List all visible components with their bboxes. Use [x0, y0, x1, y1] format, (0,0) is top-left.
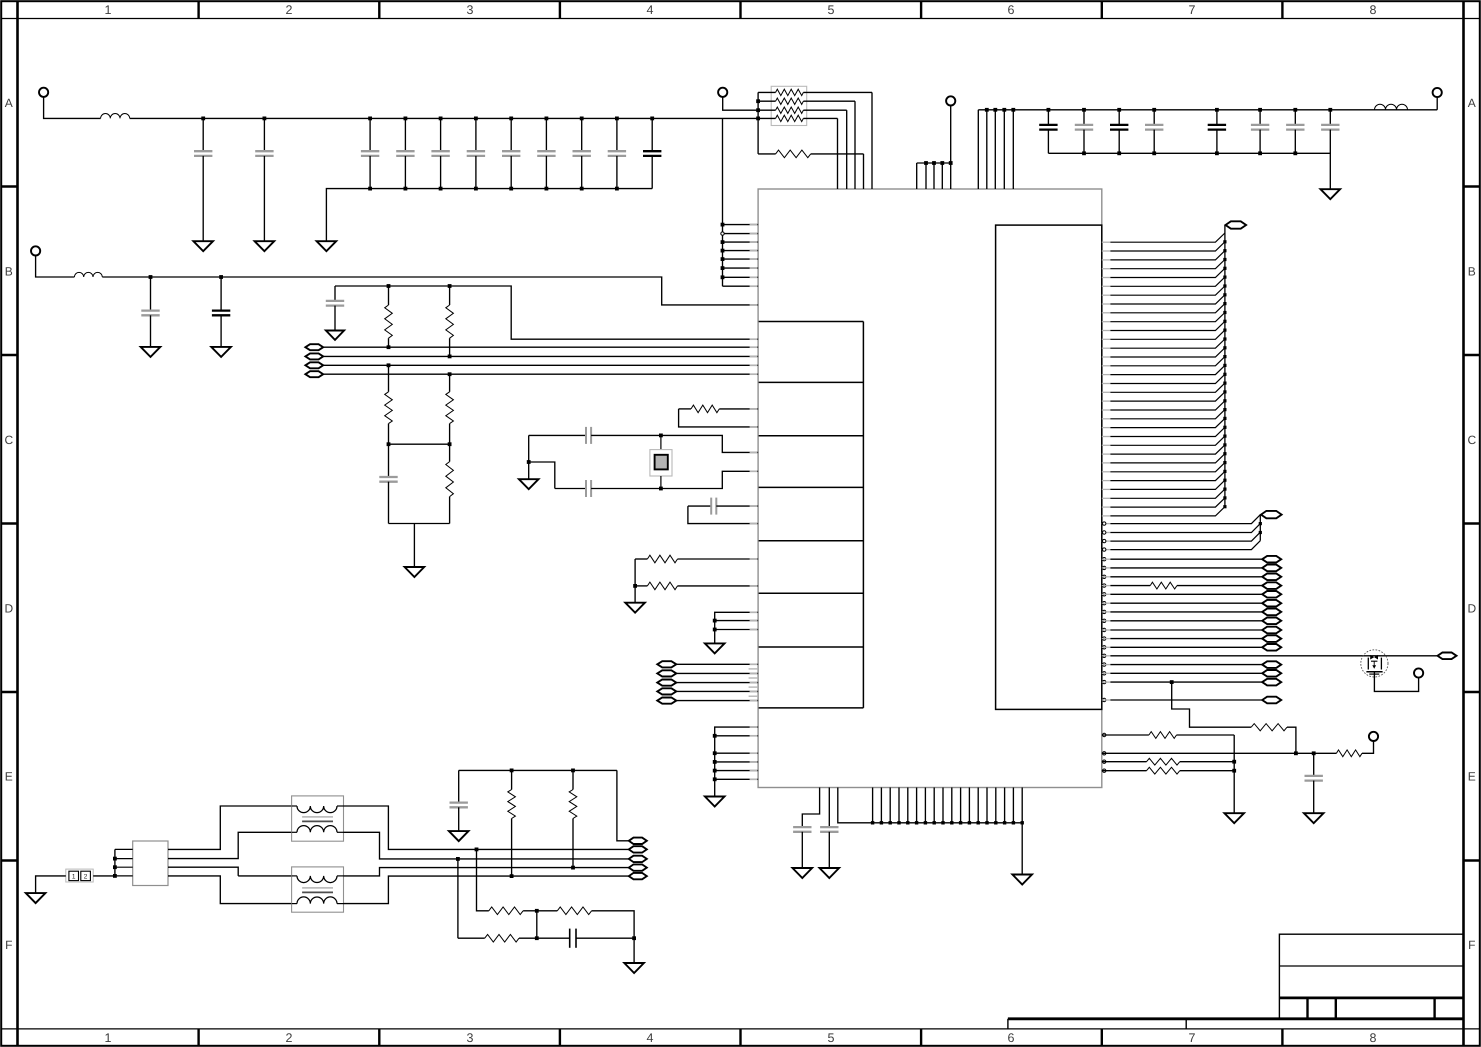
- junction (rail A / C7): [509, 117, 513, 121]
- svg-text:7: 7: [1189, 3, 1196, 17]
- resistor pack RN1 box: [771, 86, 807, 125]
- resistor R29: [537, 907, 634, 938]
- junction: [1232, 769, 1236, 773]
- ground (R16/R17): [625, 603, 645, 613]
- junction (ladder bus): [1223, 408, 1226, 411]
- port P7: [1369, 732, 1378, 741]
- junction (ladder bus): [1223, 373, 1226, 376]
- junction: [977, 821, 980, 824]
- capacitor C13: [212, 277, 230, 347]
- junction (bus/R2): [756, 99, 760, 103]
- capacitor C30: [1305, 753, 1323, 813]
- junction (net / R10): [387, 284, 391, 288]
- junction (bank2 bottom): [1152, 151, 1156, 155]
- wire U2 p3 to T2: [168, 867, 238, 876]
- node pad L2: [657, 670, 676, 676]
- crystal Y1: [650, 435, 672, 488]
- pin marker: [1103, 769, 1106, 772]
- port P4: [946, 96, 955, 105]
- junction (rail B / C12): [149, 275, 153, 279]
- capacitor C14: [326, 286, 344, 331]
- node pad R10: [1262, 635, 1281, 642]
- IC U1 inner stacked blocks left: [759, 322, 864, 708]
- resistor R30: [458, 934, 537, 942]
- junction (bank bottom / C4): [404, 187, 408, 191]
- junction: [915, 821, 918, 824]
- IC U1 outline: [758, 189, 1102, 788]
- junction (bank2 bottom): [1082, 151, 1086, 155]
- wire pad L3 to IC: [676, 682, 758, 684]
- ground (C1): [193, 241, 213, 251]
- pin marker: [1103, 531, 1106, 534]
- junction (ladder bus): [1223, 329, 1226, 332]
- junction (rail A / C8): [545, 117, 549, 121]
- junction: [959, 821, 962, 824]
- junction (R17): [633, 584, 637, 588]
- node pad E3: [629, 856, 647, 862]
- capacitor C16: [585, 427, 587, 444]
- node pad L1: [657, 661, 676, 667]
- junction (ladder bus): [1223, 488, 1226, 491]
- wire tapB down: [477, 849, 489, 910]
- capacitor C18 loop: [688, 498, 758, 524]
- pin marker: [1103, 672, 1106, 675]
- junction (rail A2 / C23): [1152, 108, 1156, 112]
- pin marker: [1103, 602, 1106, 605]
- junction (rail A / C10): [615, 117, 619, 121]
- junction: [897, 821, 900, 824]
- wire bottom pin 2 + capacitor C29: [820, 788, 838, 869]
- pin marker: [1103, 663, 1106, 666]
- junction (ladder bus): [1223, 452, 1226, 455]
- junction (XTAL1 / crystal): [659, 434, 663, 438]
- junction (ladder bus): [1223, 267, 1226, 270]
- svg-text:A: A: [5, 96, 13, 110]
- wire pin 771 + resistor R25: [1102, 767, 1234, 774]
- capacitor C31: [450, 770, 468, 831]
- capacitor C23: [1145, 110, 1163, 154]
- ground (bottom network): [624, 963, 644, 973]
- junction (ladder bus): [1223, 355, 1226, 358]
- node pad S2: [1262, 670, 1281, 677]
- wire termination bottom: [389, 523, 450, 525]
- pin marker: [1103, 760, 1106, 763]
- pin marker: [1103, 619, 1106, 622]
- junction (rail A / C1): [201, 117, 205, 121]
- junction (rail A / C2): [263, 117, 267, 121]
- svg-text:5: 5: [828, 1031, 835, 1045]
- ground (C28): [793, 868, 813, 878]
- wire port P3 to bus: [723, 97, 758, 110]
- node pad (MOSFET): [1438, 653, 1457, 660]
- node pad E1: [629, 838, 647, 844]
- junction: [993, 108, 997, 112]
- node pad E5: [629, 873, 647, 879]
- svg-text:E: E: [5, 770, 13, 784]
- junction (tapA): [456, 857, 460, 861]
- wire pair net 2 to IC: [323, 355, 758, 357]
- pin marker: [1103, 733, 1106, 736]
- pin marker: [1103, 548, 1106, 551]
- port P6: [1414, 668, 1423, 677]
- wire gnd stem: [528, 462, 530, 479]
- wire rail A2 (y=109.8): [978, 110, 1437, 189]
- junction (XTAL2 / crystal): [659, 487, 663, 491]
- pin marker: [1103, 698, 1106, 701]
- wire pad L4 to IC: [676, 690, 758, 692]
- transformer T1: [292, 796, 344, 841]
- junction (ladder bus): [1223, 496, 1226, 499]
- node pad R4: [1262, 582, 1281, 589]
- junction (ladder bus): [1223, 320, 1226, 323]
- junction: [721, 249, 725, 253]
- junction: [713, 751, 717, 755]
- capacitor C25: [1251, 110, 1269, 154]
- capacitor C12: [141, 277, 159, 347]
- junction (bank bottom / C8): [545, 187, 549, 191]
- IC left edge pin stubs (gray): [750, 225, 758, 780]
- pin marker: [1103, 628, 1106, 631]
- junction: [889, 821, 892, 824]
- svg-text:F: F: [1468, 938, 1475, 952]
- junction: [1002, 108, 1006, 112]
- wire IC pins to gnd bus (727-779): [715, 727, 758, 796]
- capacitor C17: [585, 480, 587, 497]
- wire bottom ground bus: [838, 788, 1022, 875]
- resistor R14: [446, 444, 454, 523]
- junction: [113, 874, 117, 878]
- junction (bank bottom / C3): [368, 187, 372, 191]
- junction (gate tap): [1170, 680, 1174, 684]
- wire tapA down: [457, 859, 459, 938]
- junction (rail A2 / C25): [1258, 108, 1262, 112]
- filter block U2: [133, 841, 168, 886]
- junction: [1011, 108, 1015, 112]
- svg-text:F: F: [5, 938, 12, 952]
- junction: [535, 936, 539, 940]
- junction (ladder bus): [1223, 284, 1226, 287]
- resistor RN1-2: [758, 98, 855, 189]
- node pad (pair net 2): [305, 353, 323, 359]
- wire port P2 to rail: [36, 256, 75, 278]
- junction: [949, 161, 953, 165]
- ground (crystal): [519, 479, 539, 489]
- pin marker: [1103, 680, 1106, 683]
- wire to ground: [633, 938, 635, 963]
- wire right 4-group to bus: [1102, 515, 1261, 550]
- svg-text:6: 6: [1008, 1031, 1015, 1045]
- wire J1 to ground: [36, 876, 66, 893]
- junction: [933, 821, 936, 824]
- capacitor C11: [643, 118, 661, 188]
- junction (ladder bus): [1223, 346, 1226, 349]
- wire net AVDD mid (y=286) to IC pin: [335, 286, 758, 339]
- svg-text:1: 1: [105, 3, 112, 17]
- wire termination node: [389, 443, 450, 445]
- junction: [535, 909, 539, 913]
- junction: [924, 161, 928, 165]
- port P5: [1433, 88, 1442, 97]
- pin marker: [1103, 593, 1106, 596]
- junction (rail A2 / C20): [1047, 108, 1051, 112]
- pin marker: [1103, 522, 1106, 525]
- junction: [1259, 531, 1262, 534]
- wire crystal caps to ground: [528, 435, 530, 462]
- port P3 (pack): [718, 88, 727, 97]
- junction (ladder bus): [1223, 479, 1226, 482]
- node pad R8: [1262, 618, 1281, 625]
- ground (termination): [405, 567, 425, 577]
- svg-text:6: 6: [1008, 3, 1015, 17]
- junction (R11 / pair1-): [448, 355, 452, 359]
- ground (J1): [26, 893, 46, 903]
- junction: [924, 821, 927, 824]
- pin marker: [1103, 752, 1106, 755]
- wire right pad 10: [1102, 638, 1262, 640]
- resistor R27: [569, 770, 577, 867]
- wire T2 out top: [344, 868, 630, 876]
- transformer T2: [292, 867, 344, 912]
- wire U2 left bus: [115, 849, 133, 876]
- pin no-connect marker: [721, 232, 724, 235]
- wire right pad 1: [1102, 558, 1262, 560]
- pin marker: [1103, 558, 1106, 561]
- junction: [968, 821, 971, 824]
- junction (bank bottom / C9): [580, 187, 584, 191]
- IC U1 inner block right: [996, 225, 1102, 709]
- wire right pad 2: [1102, 567, 1262, 569]
- node pad L3: [657, 680, 676, 686]
- node pad S1: [1262, 661, 1281, 668]
- junction (rail A / C5): [439, 117, 443, 121]
- junction: [985, 108, 989, 112]
- pin marker: [1103, 566, 1106, 569]
- svg-text:8: 8: [1370, 1031, 1377, 1045]
- wire P4 group bus: [917, 106, 951, 190]
- junction: [906, 821, 909, 824]
- wire pair net 3 to IC: [323, 364, 758, 366]
- wire pair net 1 to IC: [323, 346, 758, 348]
- wire U2 p1 to T1: [168, 806, 292, 849]
- junction: [721, 266, 725, 270]
- wire pair net 4 to IC: [323, 373, 758, 375]
- node pad R5: [1262, 591, 1281, 598]
- wire gate tap to R21: [1172, 682, 1252, 727]
- svg-text:D: D: [4, 601, 13, 615]
- decoupling bank rail bottom wire: [326, 189, 652, 242]
- pin marker: [1103, 637, 1106, 640]
- junction: [1294, 751, 1298, 755]
- junction (ladder bus): [1223, 337, 1226, 340]
- wire pin 735 + resistor R22: [1102, 732, 1234, 814]
- node pad R2: [1262, 565, 1281, 572]
- capacitor C7: [502, 118, 520, 188]
- node pad (pair net 1): [305, 344, 323, 350]
- junction (rail A2 / C27): [1328, 108, 1332, 112]
- wire bus x=722.5 to IC pins: [723, 118, 759, 286]
- wire right pad 3: [1102, 576, 1262, 578]
- wire pad L1 to IC: [676, 663, 758, 665]
- svg-text:3: 3: [467, 3, 474, 17]
- wire pin 762 + resistor R24: [1102, 758, 1234, 765]
- svg-text:3: 3: [467, 1031, 474, 1045]
- wire right pad S2: [1102, 672, 1262, 674]
- wire right pad S4: [1102, 699, 1262, 701]
- ground (pins 727-779): [705, 797, 725, 807]
- junction: [932, 161, 936, 165]
- title block: [1008, 934, 1464, 1029]
- wire right pad 11: [1102, 646, 1262, 648]
- junction (bank bottom / C7): [509, 187, 513, 191]
- junction: [950, 821, 953, 824]
- resistor R23: [1336, 750, 1362, 757]
- svg-text:C: C: [4, 433, 13, 447]
- wire right pad 5: [1102, 593, 1262, 595]
- wire bank2 bottom rail: [1048, 153, 1330, 189]
- node pad R9: [1262, 627, 1281, 634]
- wire T2 out bottom: [344, 876, 630, 904]
- wire right pin ladder to bus: [1102, 225, 1225, 516]
- wire pack bus: [757, 92, 759, 153]
- ground (R22 bus): [1224, 813, 1244, 823]
- wire rail A (y=118.4): [130, 117, 758, 119]
- junction (ladder bus): [1223, 364, 1226, 367]
- svg-text:B: B: [5, 264, 13, 278]
- junction: [721, 275, 725, 279]
- wire R16 to R17: [634, 559, 636, 586]
- junction (rail A2 / C24): [1215, 108, 1219, 112]
- node pad L5: [657, 698, 676, 704]
- junction (ladder bus): [1223, 249, 1226, 252]
- wire pad L2 to IC: [676, 672, 758, 674]
- capacitor C15: [379, 444, 397, 523]
- junction (bank bottom / C5): [439, 187, 443, 191]
- wire with resistor R20: [1102, 582, 1262, 589]
- resistor R1: [758, 150, 863, 189]
- junction (ladder bus): [1223, 426, 1226, 429]
- wire P5 stem: [1436, 97, 1438, 110]
- junction (ladder bus): [1223, 276, 1226, 279]
- node pad R6: [1262, 600, 1281, 607]
- wire C17 to crystal / IC: [591, 471, 758, 488]
- ferrite bead FB3: [1375, 104, 1408, 109]
- junction (rail A / C6): [474, 117, 478, 121]
- junction: [713, 769, 717, 773]
- wire right pad 9: [1102, 629, 1262, 631]
- capacitor C24: [1208, 110, 1226, 154]
- wire to ground: [634, 586, 636, 603]
- resistor R28: [489, 907, 523, 915]
- resistor R12: [385, 365, 393, 444]
- capacitor C2: [255, 118, 273, 241]
- junction (ladder bus): [1223, 302, 1226, 305]
- wire J1 to bus: [93, 875, 115, 877]
- junction (rail/R26): [510, 769, 514, 773]
- junction (bank2 bottom): [1293, 151, 1297, 155]
- junction: [985, 821, 988, 824]
- node pad S4: [1262, 697, 1281, 704]
- capacitor C5: [431, 118, 449, 188]
- wire right pad 7: [1102, 611, 1262, 613]
- junction (ladder bus): [1223, 311, 1226, 314]
- resistor RN1-1: [758, 89, 872, 189]
- capacitor C27: [1321, 110, 1339, 154]
- wire U2 p4 to T2: [168, 876, 292, 904]
- resistor R16: [635, 555, 758, 563]
- junction (bank bottom / C6): [474, 187, 478, 191]
- wire to ground (termination): [413, 524, 415, 568]
- node pad (ladder top): [1226, 221, 1247, 228]
- junction (R10 / pair1+): [387, 345, 391, 349]
- wire XTAL2: [555, 488, 586, 490]
- junction (rail A2 / C22): [1117, 108, 1121, 112]
- pin marker: [1103, 575, 1106, 578]
- resistor R11: [446, 286, 454, 356]
- connector J1: [66, 869, 93, 882]
- junction (ladder bus): [1223, 399, 1226, 402]
- pin marker: [1103, 654, 1106, 657]
- capacitor C1: [194, 118, 212, 241]
- resistor RN1-4: [758, 115, 837, 189]
- ground (IC bottom): [1012, 875, 1032, 885]
- svg-text:C: C: [1467, 433, 1476, 447]
- junction (ladder bus): [1223, 470, 1226, 473]
- node pad R11: [1262, 644, 1281, 651]
- junction (ladder bus): [1223, 258, 1226, 261]
- svg-text:2: 2: [84, 874, 88, 881]
- ground (C12): [141, 347, 161, 357]
- svg-text:D: D: [1467, 601, 1476, 615]
- ferrite bead FB2: [74, 272, 102, 277]
- capacitor C26: [1286, 110, 1304, 154]
- capacitor C10: [608, 118, 626, 188]
- junction: [994, 821, 997, 824]
- wire port P1 to rail: [44, 97, 101, 119]
- capacitor C20: [1039, 110, 1057, 154]
- junction (gnd node): [527, 460, 531, 464]
- wire T1 out bottom: [344, 832, 630, 859]
- wire R28 to node: [523, 910, 537, 912]
- resistor R21: [1251, 724, 1287, 731]
- junction (C30): [1312, 751, 1316, 755]
- junction: [880, 821, 883, 824]
- port P2 (row B supply): [31, 246, 40, 255]
- junction: [1259, 522, 1262, 525]
- wire bottom pin 1 + capacitor C28: [793, 788, 820, 869]
- ground (C29): [820, 868, 840, 878]
- junction: [940, 161, 944, 165]
- wire right pad S3: [1102, 681, 1262, 683]
- wire pad L5 to IC: [676, 700, 758, 702]
- junction: [1012, 821, 1015, 824]
- wire MOSFET drain line: [1102, 655, 1438, 657]
- capacitor C3: [361, 118, 379, 188]
- junction: [713, 734, 717, 738]
- svg-text:4: 4: [647, 1031, 654, 1045]
- resistor R10: [385, 286, 393, 347]
- junction (ladder bus): [1223, 240, 1226, 243]
- junction (rail A / C9): [580, 117, 584, 121]
- resistor RN1-3: [758, 107, 847, 189]
- junction (ladder bus): [1223, 390, 1226, 393]
- wire right pad 8: [1102, 620, 1262, 622]
- ground (bank2): [1321, 189, 1341, 199]
- ground (C30): [1304, 813, 1324, 823]
- wire XTAL1: [529, 434, 586, 436]
- junction (rail/R27): [571, 769, 575, 773]
- junction: [721, 257, 725, 261]
- pin marker: [1103, 584, 1106, 587]
